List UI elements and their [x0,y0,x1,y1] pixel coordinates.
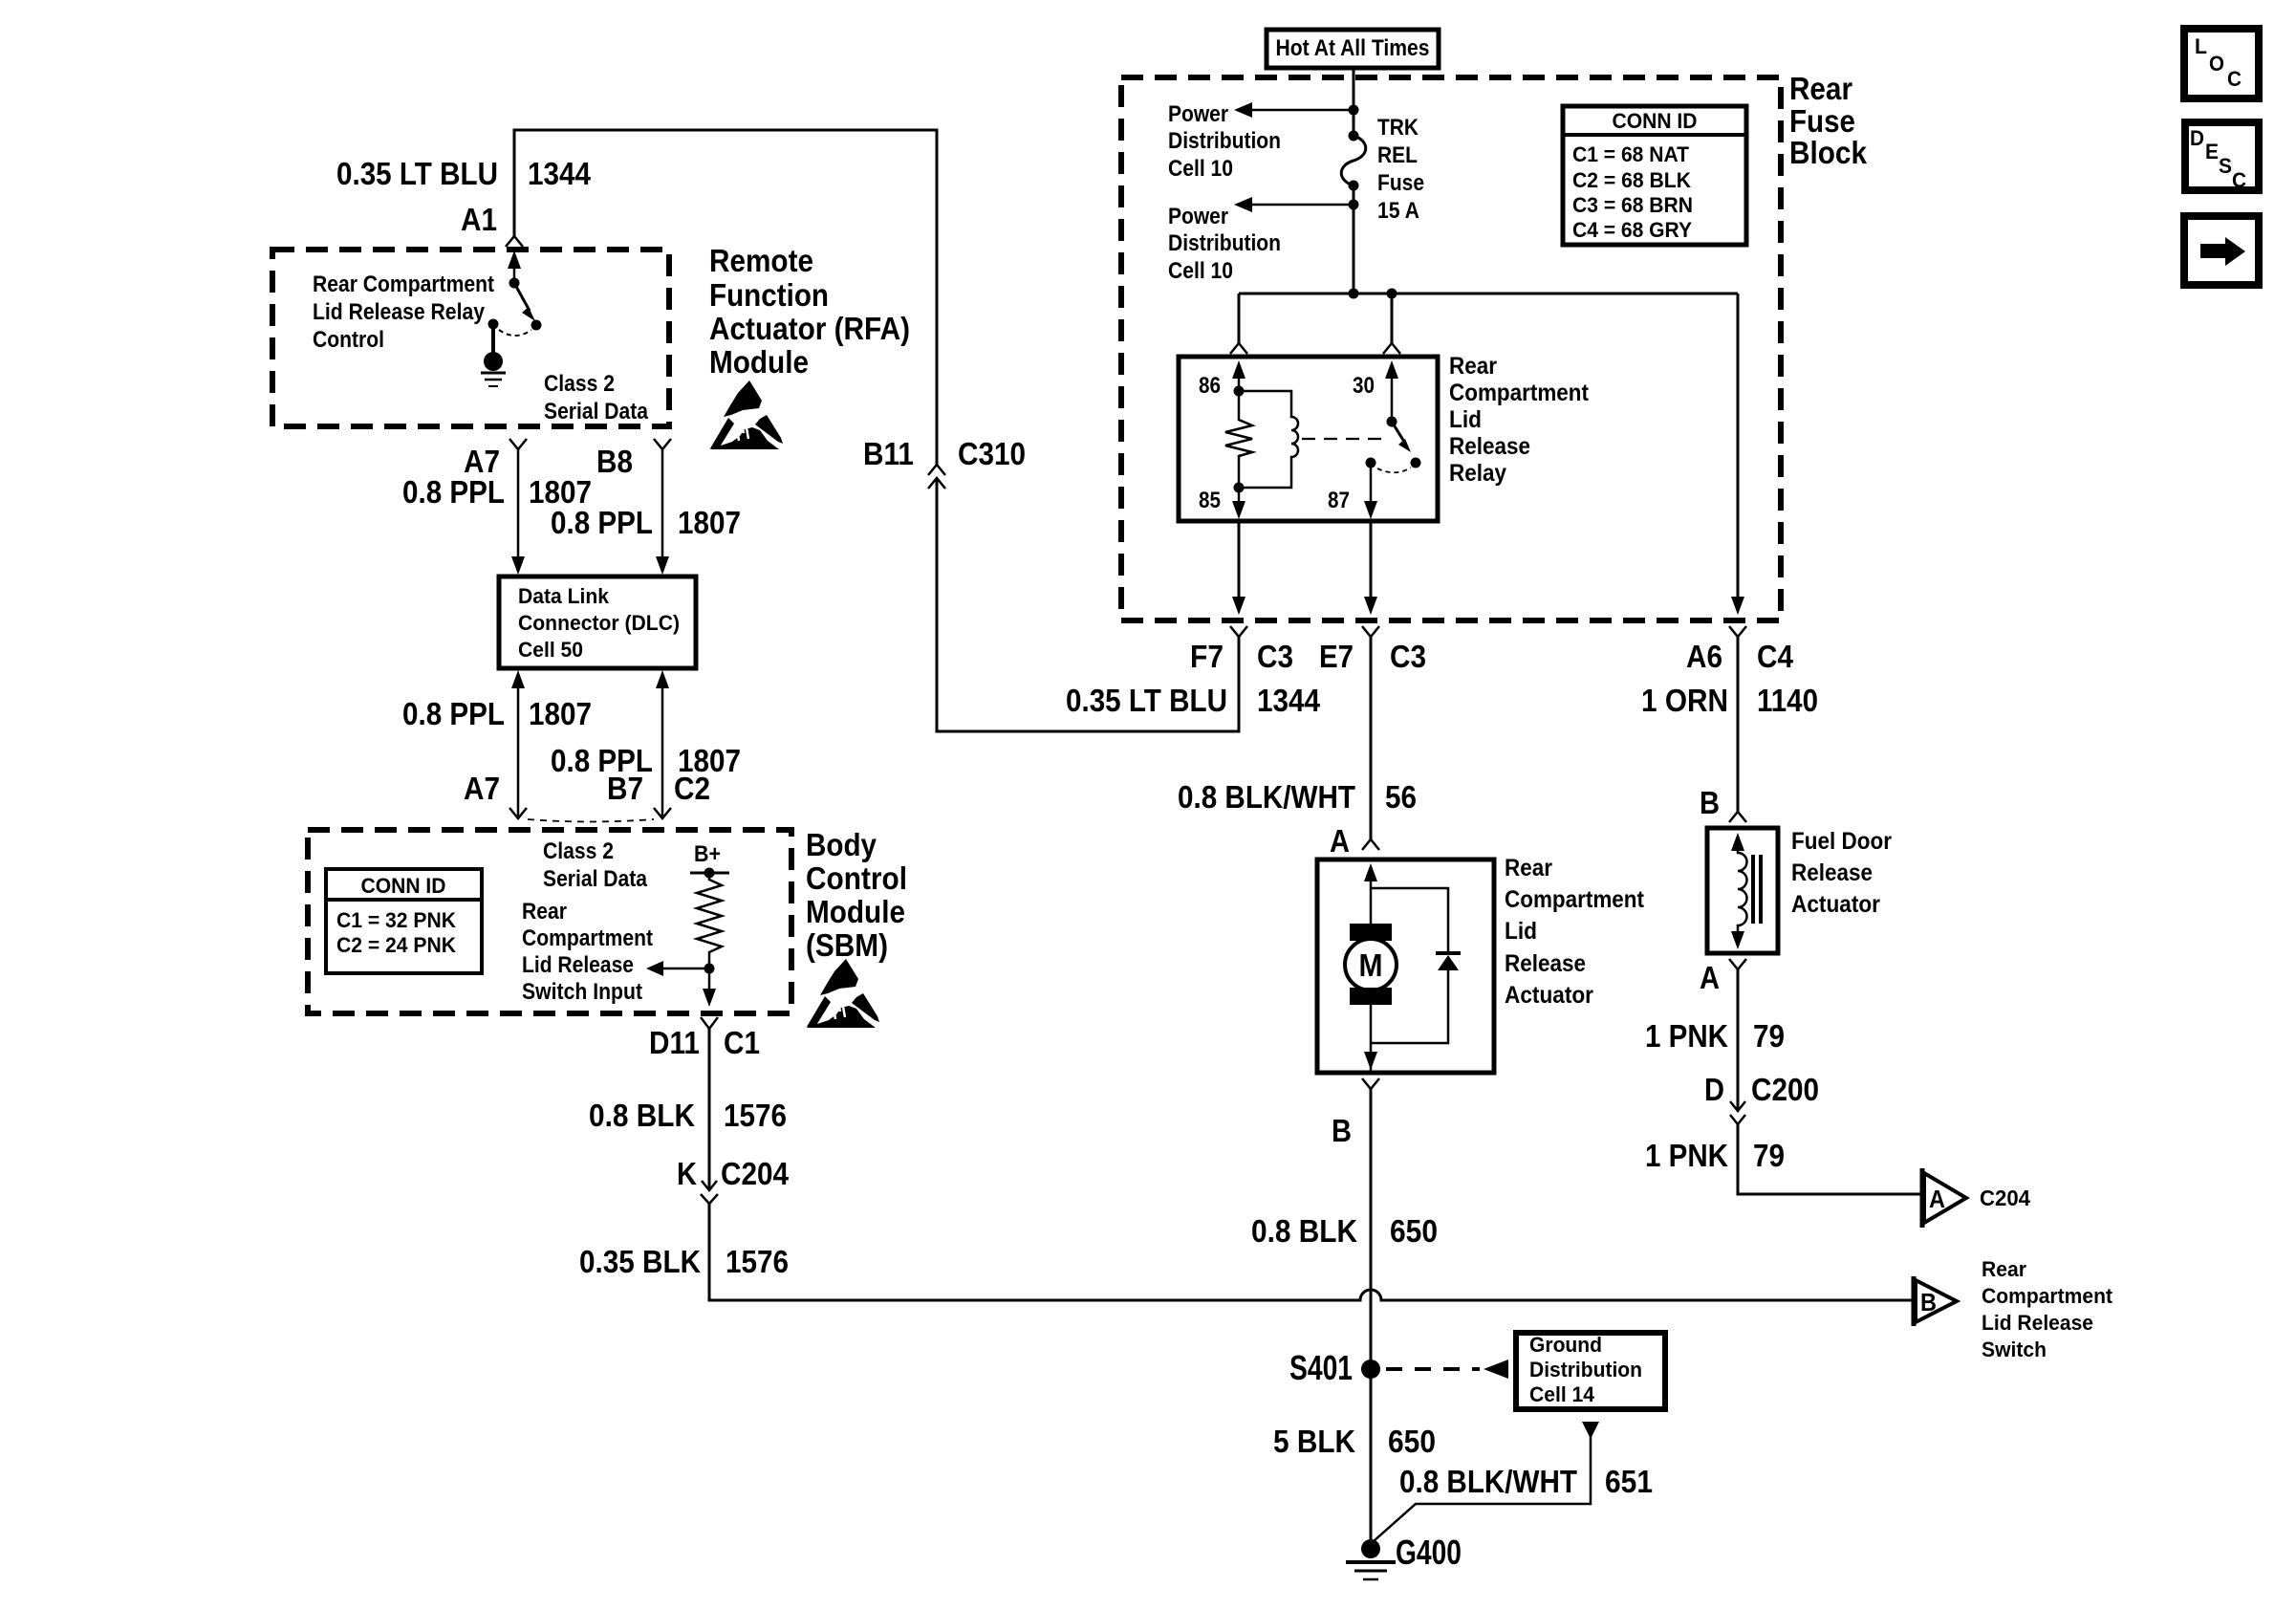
svg-text:0.8 BLK/WHT: 0.8 BLK/WHT [1178,779,1355,815]
module box: Body Control Module (dashed) [308,830,791,1013]
connector chevron at actuator A [1362,839,1379,850]
svg-text:Compartment: Compartment [1505,886,1645,913]
svg-text:Distribution: Distribution [1168,128,1281,154]
wire: circuit 651 ground distribution to G400 [1374,1422,1599,1541]
svg-text:Body: Body [806,827,877,862]
svg-text:Lid Release: Lid Release [522,952,634,978]
svg-text:Switch: Switch [1982,1338,2047,1361]
fuse: TRK REL Fuse 15 A [1341,131,1366,191]
label: C204 (triangle ref) [1980,1186,2030,1210]
icon: continuation arrow [2184,216,2259,285]
svg-text:0.35 BLK: 0.35 BLK [579,1244,701,1279]
component box: Rear Compartment Lid Release Actuator [1317,859,1494,1073]
svg-text:0.8 PPL: 0.8 PPL [402,474,505,510]
svg-text:56: 56 [1385,779,1417,815]
svg-text:C1 = 32 PNK: C1 = 32 PNK [336,908,456,932]
pin B (lid release actuator) [1332,1113,1352,1148]
svg-text:1576: 1576 [724,1098,787,1133]
power feed box: Hot At All Times [1267,30,1439,68]
wire: branch to relay pin 86 [1230,294,1247,354]
svg-text:B: B [1700,785,1720,820]
svg-text:1576: 1576 [726,1244,789,1279]
table: CONN ID (BCM) [326,869,482,973]
svg-text:C2 = 68 BLK: C2 = 68 BLK [1572,168,1691,192]
wire: BCM output to pin D11 [703,968,716,1007]
svg-text:CONN ID: CONN ID [1613,109,1698,133]
label: 1 PNK 79 (lower) [1645,1138,1785,1173]
motor M (lid release actuator) [1345,863,1397,1073]
wire: circuit 1140 A6 to fuel door actuator B [1737,637,1740,812]
label: 0.8 PPL 1807 (lower B7 wire) [551,743,741,778]
svg-text:86: 86 [1199,373,1221,399]
svg-text:650: 650 [1390,1213,1438,1249]
svg-text:A: A [1929,1185,1945,1213]
svg-text:O: O [2209,52,2224,76]
svg-text:F7: F7 [1190,639,1224,674]
svg-text:Compartment: Compartment [522,925,653,951]
pin D11 / connector C1 [649,1025,760,1060]
svg-text:Lid Release Relay: Lid Release Relay [313,299,486,325]
svg-text:650: 650 [1388,1424,1436,1459]
svg-text:Actuator (RFA): Actuator (RFA) [709,311,910,346]
pin D / connector C200 [1704,1072,1819,1107]
triangle connector B to Rear Compartment Lid Release Switch [1914,1276,1957,1326]
label: Power Distribution Cell 10 (upper) [1168,101,1281,182]
reference box: Ground Distribution Cell 14 [1516,1333,1665,1409]
fuel door release solenoid coil [1731,833,1761,949]
table: CONN ID (fuse block) [1563,106,1746,245]
svg-text:B: B [1920,1288,1937,1316]
svg-text:651: 651 [1605,1464,1653,1499]
wire: circuit 1807 RFA A7 to DLC [511,449,525,575]
svg-text:A7: A7 [464,771,500,806]
svg-text:C204: C204 [1980,1186,2030,1210]
svg-text:Function: Function [709,277,829,313]
svg-text:A: A [1330,823,1350,859]
svg-text:B8: B8 [596,444,633,479]
svg-text:15 A: 15 A [1377,198,1419,224]
label: 0.35 LT BLU 1344 (RFA A1 wire) [336,156,592,191]
svg-text:Power: Power [1168,204,1228,229]
label: Class 2 Serial Data (BCM) [543,838,648,892]
svg-text:Fuel Door: Fuel Door [1791,828,1892,855]
svg-text:Cell 50: Cell 50 [518,638,583,662]
wire: relay pin 87 to E7 [1364,521,1377,615]
inline connector C310 chevrons [928,465,945,489]
diode (lid release actuator) [1371,888,1461,1043]
node B+ [690,841,729,879]
svg-text:C3 = 68 BRN: C3 = 68 BRN [1572,193,1693,217]
resistor: BCM switch input pull-up [697,873,722,968]
svg-text:Class 2: Class 2 [543,838,614,864]
svg-text:Control: Control [313,327,384,353]
label: 0.35 BLK 1576 [579,1244,789,1279]
relay coil branch (pin 86 to 85) [1225,360,1298,519]
svg-text:E: E [2205,140,2219,163]
svg-text:Compartment: Compartment [1982,1284,2113,1308]
svg-text:Cell 10: Cell 10 [1168,156,1233,182]
pin E7 / connector C3 [1319,639,1426,674]
wire: circuit 1576 D11 to C204 [702,1029,717,1190]
pin A (lid release actuator) [1330,823,1350,859]
table text: CONN ID C1-C4 colors [1572,109,1698,242]
svg-text:0.8 PPL: 0.8 PPL [402,696,505,731]
svg-text:Control: Control [806,860,907,896]
svg-text:1 PNK: 1 PNK [1645,1018,1728,1054]
svg-text:Rear: Rear [1789,71,1852,106]
svg-text:C: C [2232,168,2246,192]
svg-text:C4: C4 [1757,639,1794,674]
svg-text:0.8 PPL: 0.8 PPL [551,505,653,540]
component box: Data Link Connector (DLC) [499,577,696,668]
ESD symbol (RFA module) [709,381,783,449]
svg-text:Actuator: Actuator [1791,891,1880,918]
wire: circuit 1807 DLC to BCM A7 [511,670,525,818]
svg-text:C3: C3 [1257,639,1293,674]
pin A7 (RFA) [464,444,500,479]
relay switch branch (pin 30 to 87) [1302,360,1421,519]
svg-text:Rear: Rear [1449,353,1497,380]
label: Data Link Connector (DLC) Cell 50 [518,584,680,662]
wire: relay pin 85 to F7 [1232,521,1245,615]
svg-text:(SBM): (SBM) [806,927,888,963]
svg-text:C1: C1 [724,1025,760,1060]
connector chevron at RFA A1 [506,236,523,247]
svg-text:0.35 LT BLU: 0.35 LT BLU [336,156,498,191]
svg-text:Release: Release [1449,433,1530,460]
label: 0.8 PPL 1807 (A7 wire) [402,474,592,510]
svg-text:0.35 LT BLU: 0.35 LT BLU [1066,683,1227,718]
svg-text:1140: 1140 [1757,683,1818,718]
svg-text:79: 79 [1753,1018,1785,1054]
connector chevron BCM D11 [701,1017,718,1029]
label: 0.8 PPL 1807 (B8 wire) [551,505,741,540]
svg-text:Serial Data: Serial Data [543,866,648,892]
svg-text:D11: D11 [649,1025,700,1060]
label: 1 ORN 1140 [1641,683,1818,718]
pin B8 (RFA) [596,444,633,479]
svg-text:Lid Release: Lid Release [1982,1311,2093,1335]
wire: circuit 56 E7 to actuator pin A [1370,637,1373,839]
connector C2 tie line [528,819,654,822]
svg-text:0.8 BLK/WHT: 0.8 BLK/WHT [1399,1464,1577,1499]
pin K / connector C204 [677,1156,790,1191]
label: Body Control Module (SBM) [806,827,907,963]
connector chevron at actuator B [1362,1078,1379,1089]
icon: LOC page marker [2184,29,2259,98]
svg-text:30: 30 [1353,373,1375,399]
wire: circuit 1576 to rear lid release switch (with hop over 650) [709,1204,1912,1300]
splice S401 [1289,1348,1380,1387]
wire: circuit 1807 RFA B8 to DLC [656,449,669,575]
svg-text:1344: 1344 [528,156,592,191]
pin A (fuel door actuator) [1700,960,1720,995]
svg-text:0.8 BLK: 0.8 BLK [1251,1213,1357,1249]
svg-text:Hot At All Times: Hot At All Times [1276,35,1430,61]
svg-text:Rear Compartment: Rear Compartment [313,272,494,297]
svg-text:B7: B7 [607,771,643,806]
pin B (fuel door actuator) [1700,785,1720,820]
pin B11 / connector C310 [863,436,1026,471]
svg-text:Rear: Rear [1982,1257,2026,1281]
connector chevron BCM B7 [654,808,671,818]
connector chevron E7 [1362,626,1379,637]
module box: Rear Fuse Block (dashed) [1121,77,1781,620]
svg-text:Distribution: Distribution [1529,1358,1642,1382]
svg-text:1807: 1807 [678,505,741,540]
svg-text:Power: Power [1168,101,1228,127]
svg-text:C3: C3 [1390,639,1426,674]
svg-text:A6: A6 [1686,639,1722,674]
svg-text:Remote: Remote [709,243,813,278]
pin F7 / connector C3 [1190,639,1293,674]
svg-text:Rear: Rear [522,899,567,925]
wire: branch to fuse block pin A6 [1731,294,1744,615]
label: Rear Fuse Block [1789,71,1868,170]
svg-text:M: M [1359,947,1383,983]
connector chevron F7 [1230,626,1247,637]
label: 1 PNK 79 (upper) [1645,1018,1785,1054]
svg-text:D: D [1704,1072,1724,1107]
svg-text:Release: Release [1791,859,1873,886]
label: 0.8 BLK/WHT 56 [1178,779,1417,815]
svg-text:A: A [1700,960,1720,995]
svg-text:A1: A1 [461,202,497,237]
svg-text:C2: C2 [674,771,710,806]
svg-text:C310: C310 [958,436,1026,471]
svg-text:CONN ID: CONN ID [361,874,446,898]
svg-text:C: C [2227,67,2242,91]
svg-text:D: D [2190,126,2204,150]
label: TRK REL Fuse 15 A [1377,115,1424,224]
wire: circuit 79 C200 to C204 triangle [1738,1124,1920,1194]
wire: battery feed from Hot At All Times [1353,68,1355,136]
ESD symbol (BCM) [806,959,879,1028]
svg-text:5 BLK: 5 BLK [1273,1424,1355,1459]
connector chevron at fuel door A [1729,959,1746,969]
svg-text:Module: Module [806,894,905,929]
svg-text:Block: Block [1789,135,1868,170]
wire: branch to relay pin 30 [1383,294,1400,354]
label: Rear Compartment Lid Release Relay [1449,353,1590,487]
label: G400 [1396,1533,1462,1572]
connector chevron BCM A7 [509,808,527,818]
svg-text:1 ORN: 1 ORN [1641,683,1728,718]
wire: circuit 79 fuel door A to C200 [1730,969,1745,1111]
svg-text:1 PNK: 1 PNK [1645,1138,1728,1173]
label: 0.8 BLK/WHT 651 [1399,1464,1653,1499]
label: Fuel Door Release Actuator [1791,828,1892,918]
svg-text:TRK: TRK [1377,115,1419,141]
pin A7 (BCM) [464,771,500,806]
label: 5 BLK 650 [1273,1424,1436,1459]
table text: CONN ID C1=32 PNK C2=24 PNK [336,874,456,957]
relay box: Rear Compartment Lid Release Relay [1179,357,1438,521]
svg-text:E7: E7 [1319,639,1354,674]
svg-text:85: 85 [1199,488,1221,513]
wire: circuit 1807 DLC to BCM B7 [656,670,669,818]
svg-text:C204: C204 [721,1156,790,1191]
pin A6 / connector C4 [1686,639,1794,674]
label: Rear Compartment Lid Release Switch [1982,1257,2113,1361]
svg-text:79: 79 [1753,1138,1785,1173]
label: 0.35 LT BLU 1344 (F7 wire) [1066,683,1321,718]
svg-text:Relay: Relay [1449,460,1506,487]
svg-text:Module: Module [709,344,809,380]
svg-text:Connector (DLC): Connector (DLC) [518,611,680,635]
svg-text:Fuse: Fuse [1789,103,1855,139]
junction + power distribution arrow (lower) [1234,197,1359,212]
dashed reference to Ground Distribution [1386,1360,1508,1379]
svg-text:C200: C200 [1751,1072,1819,1107]
ground G400 [1346,1539,1396,1579]
pin B7 / connector C2 (BCM) [607,771,710,806]
svg-text:Serial Data: Serial Data [544,399,649,424]
label: Power Distribution Cell 10 (lower) [1168,204,1281,284]
svg-text:1807: 1807 [529,696,592,731]
junction + switch input arrow [646,961,715,976]
inline connector C204 chevron [701,1194,718,1204]
svg-text:Cell 10: Cell 10 [1168,258,1233,284]
relay pin 86 [1199,373,1221,399]
label: Remote Function Actuator (RFA) Module [709,243,910,380]
connector chevron at fuel door B [1729,812,1746,822]
svg-text:L: L [2195,34,2207,58]
connector chevron RFA A7 [509,439,527,449]
svg-text:Release: Release [1505,950,1586,977]
svg-text:C4 = 68 GRY: C4 = 68 GRY [1572,218,1692,242]
svg-text:0.8 BLK: 0.8 BLK [589,1098,695,1133]
svg-text:S: S [2219,154,2232,178]
svg-text:Switch Input: Switch Input [522,979,642,1005]
wire: fused feed bus [1239,185,1738,299]
label: Class 2 Serial Data (RFA) [544,371,649,424]
svg-text:Compartment: Compartment [1449,380,1590,406]
svg-text:REL: REL [1377,142,1418,168]
wire: circuit 650 actuator B to G400 [1370,1089,1373,1540]
svg-text:B: B [1332,1113,1352,1148]
label: 0.8 BLK 1576 [589,1098,787,1133]
component box: Fuel Door Release Actuator [1707,828,1778,953]
relay pin 30 [1353,373,1375,399]
relay pin 85 [1199,488,1221,513]
svg-text:1344: 1344 [1257,683,1321,718]
svg-text:B+: B+ [694,841,721,867]
connector chevron RFA B8 [654,439,671,449]
svg-text:G400: G400 [1396,1533,1462,1572]
label: Rear Compartment Lid Release Switch Input [522,899,653,1005]
svg-text:87: 87 [1328,488,1350,513]
label: Rear Compartment Lid Release Relay Control [313,272,494,353]
module box: Remote Function Actuator (RFA) Module (dashed) [272,250,669,426]
label: 0.8 BLK 650 [1251,1213,1438,1249]
ground symbol inside RFA [481,324,506,386]
svg-text:S401: S401 [1289,1348,1353,1387]
svg-text:B11: B11 [863,436,914,471]
svg-text:C2 = 24 PNK: C2 = 24 PNK [336,933,456,957]
svg-text:Cell 14: Cell 14 [1529,1382,1595,1406]
wire: circuit 1344 from RFA pin A1 up and over to C310 [514,130,937,466]
triangle connector A to C204 [1922,1168,1966,1228]
connector chevron A6 [1729,626,1746,637]
junction + power distribution arrow (upper) [1234,102,1359,118]
svg-text:K: K [677,1156,697,1191]
inline connector C200 chevron [1730,1115,1745,1124]
svg-text:Distribution: Distribution [1168,230,1281,256]
pin A1 [461,202,497,237]
svg-text:Lid: Lid [1449,406,1482,433]
icon: DESC page marker [2185,122,2259,192]
wire: circuit 1344 F7 down-left-up to C310 [937,478,1239,731]
svg-text:Ground: Ground [1529,1333,1602,1357]
svg-text:C1 = 68 NAT: C1 = 68 NAT [1572,142,1690,166]
label: Rear Compartment Lid Release Actuator [1505,855,1645,1009]
svg-text:Fuse: Fuse [1377,170,1424,196]
relay pin 87 [1328,488,1350,513]
svg-text:Lid: Lid [1505,918,1537,945]
relay control switch inside RFA [488,250,542,336]
label: 0.8 PPL 1807 (lower A7 wire) [402,696,592,731]
svg-text:Data Link: Data Link [518,584,610,608]
svg-text:Actuator: Actuator [1505,982,1593,1009]
svg-text:Class 2: Class 2 [544,371,615,397]
svg-text:Rear: Rear [1505,855,1552,881]
